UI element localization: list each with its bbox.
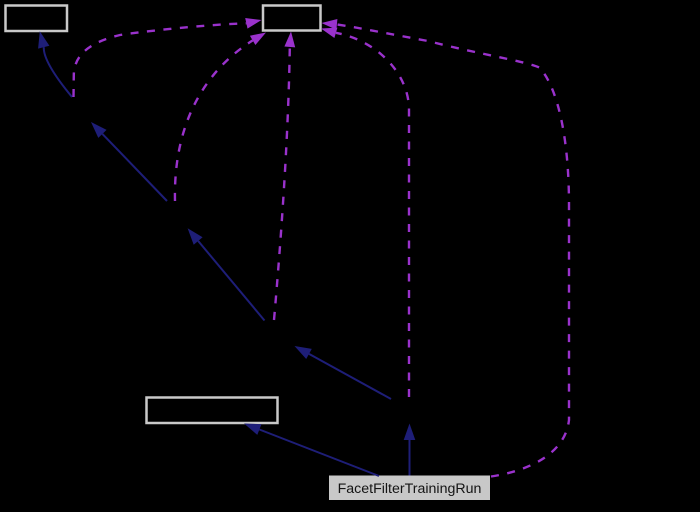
svg-text:FacetFilterTrainingRun: FacetFilterTrainingRun xyxy=(338,481,482,497)
